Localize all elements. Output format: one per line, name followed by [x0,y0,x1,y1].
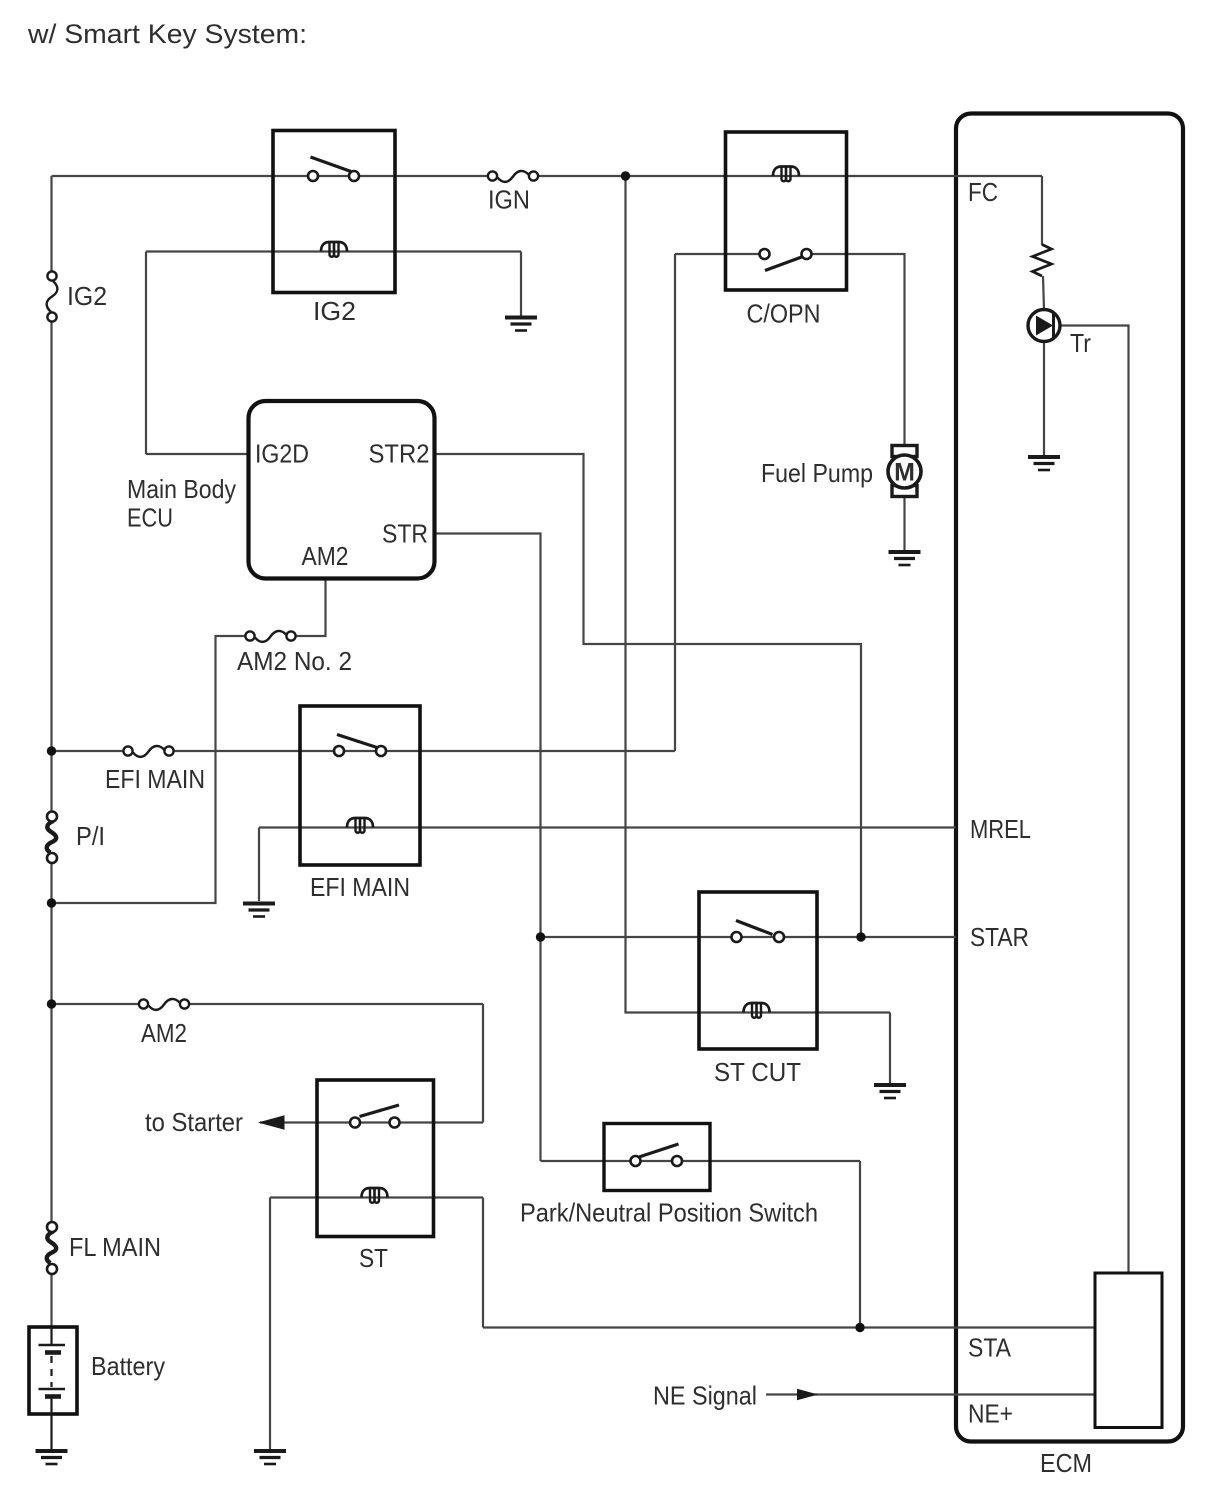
wire: MREL line from EFI MAIN coil [259,826,956,828]
wire: IGN feed to ST CUT coil [626,176,891,1013]
Main Body ECU box [249,401,435,579]
battery box [29,1327,77,1414]
resistor R (FC pull) [1033,245,1052,277]
svg-text:STR2: STR2 [369,439,430,469]
ground for battery [36,1451,68,1464]
svg-text:w/ Smart Key System:: w/ Smart Key System: [27,19,307,49]
wire: AM2 No.2 return to bus [52,636,251,903]
relay IG2 box [273,131,395,293]
junction node: bus / EFI MAIN feed [47,746,56,755]
svg-text:ECU: ECU [127,503,173,533]
fuse IGN [488,171,538,182]
junction node: STR2 / STAR tee [856,932,865,941]
fusible link FL MAIN [47,1222,57,1274]
relay EFI MAIN coil [347,818,373,833]
svg-text:ST: ST [359,1243,388,1273]
relay C/OPN box [726,132,847,290]
wire: IG2D drive vertical [145,252,147,455]
junction node: park/neutral return / STA [855,1323,864,1332]
fuse IG2 (vertical on bus) [47,271,58,321]
svg-text:Park/Neutral Position Switch: Park/Neutral Position Switch [520,1198,818,1228]
wire: fuel pump ground lead [903,498,905,552]
svg-text:Tr: Tr [1070,328,1091,358]
relay ST CUT switch contacts [732,921,785,943]
svg-text:AM2: AM2 [141,1018,187,1048]
junction node: STR / STAR tee [536,932,545,941]
wire: ST CUT coil ground lead [889,1013,891,1085]
svg-text:IG2: IG2 [313,296,356,326]
wire: park/neutral return drop [859,1161,861,1328]
wire: ST coil ground lead [269,1198,271,1451]
svg-text:Battery: Battery [91,1351,165,1381]
wire: FC drop to resistor [1041,176,1043,245]
wire: STR2 pin lead [435,454,862,937]
relay ST CUT box [699,892,817,1049]
wire: STA line into ECM [483,1326,1095,1328]
wire: IG2 relay coil line [146,250,521,252]
wire: ST coil to STA drop [482,1198,484,1328]
relay IG2 switch contacts [308,157,359,181]
relay C/OPN coil [773,167,799,182]
wire: Tr base lead [1060,326,1129,1274]
svg-text:AM2 No. 2: AM2 No. 2 [237,646,352,676]
ground for ST CUT coil [874,1085,906,1098]
wire: IGN feed top horizontal to FC [52,175,493,177]
wire: STR pin lead [435,534,541,1162]
wire: AM2 pin drop from Main Body ECU [291,579,326,637]
svg-text:P/I: P/I [76,821,105,851]
wire: park/neutral switch line [541,1160,861,1162]
svg-text:AM2: AM2 [302,541,349,571]
wire: STAR line through ST CUT switch [541,936,957,938]
relay ST coil [362,1188,388,1203]
wire: AM2 drop to ST switch [482,1004,484,1123]
wire: EFI MAIN feed horizontal [52,750,129,752]
svg-text:NE+: NE+ [968,1399,1013,1429]
wire: EFI MAIN coil ground lead [258,828,260,902]
fuel pump motor M1 [888,446,921,497]
svg-text:MREL: MREL [970,814,1031,844]
arrow to Starter [258,1115,285,1130]
svg-text:IG2D: IG2D [255,439,309,469]
ground for IG2 coil [505,318,537,331]
relay ST box [317,1080,434,1237]
svg-text:to Starter: to Starter [145,1107,243,1137]
ECM connector block [1095,1273,1162,1428]
junction node: bus / AM2 line [47,999,56,1008]
park/neutral switch contacts [631,1144,683,1166]
fuse EFI MAIN [123,746,173,757]
svg-text:EFI MAIN: EFI MAIN [105,764,205,794]
svg-text:ST CUT: ST CUT [714,1057,801,1087]
svg-text:Main Body: Main Body [127,474,236,504]
wire: Tr emitter ground lead [1043,342,1045,457]
svg-text:C/OPN: C/OPN [747,299,821,329]
fuse AM2 No. 2 [245,631,295,642]
wire: C/OPN switch left lead [675,253,765,255]
relay IG2 coil [321,242,347,257]
battery cells [39,1327,66,1450]
relay ST switch contacts [350,1105,400,1128]
relay C/OPN switch contacts [760,249,812,271]
fuse AM2 [139,999,189,1010]
svg-text:EFI MAIN: EFI MAIN [310,872,410,902]
relay ST CUT coil [744,1003,770,1018]
svg-text:ECM: ECM [1040,1448,1092,1478]
svg-text:FL MAIN: FL MAIN [69,1232,161,1262]
wire: C/OPN switch riser [674,254,676,751]
wire: C/OPN switch to fuel pump [807,254,905,446]
ground for EFI MAIN coil [243,904,275,917]
arrow NE Signal [797,1389,818,1401]
svg-text:IG2: IG2 [67,281,107,311]
wire: AM2 line to ST relay [52,1003,144,1005]
wire: ST switch line to starter arrow [260,1121,483,1123]
wire: NE+ line [766,1393,1095,1395]
wire: resistor to Tr collector [1043,276,1044,310]
junction node: IGN line / ST CUT coil feed [621,171,630,180]
relay EFI MAIN box [300,706,420,865]
park/neutral position switch box [604,1124,710,1191]
svg-text:IGN: IGN [488,185,530,215]
svg-text:STR: STR [382,519,428,549]
relay EFI MAIN switch contacts [334,735,386,757]
svg-text:NE Signal: NE Signal [653,1381,757,1411]
svg-text:Fuel Pump: Fuel Pump [761,458,873,488]
ground for ST coil [254,1451,286,1464]
transistor Tr [1028,310,1060,342]
svg-text:FC: FC [968,177,998,207]
ground for Tr emitter [1028,457,1060,470]
wire: IG2D pin lead [146,453,249,455]
svg-text:STA: STA [968,1333,1012,1363]
fusible link P/I [47,812,57,864]
wire: ST coil line [270,1196,483,1198]
wire: IG2 coil ground lead [520,252,522,318]
junction node: bus / AM2 No.2 return [47,898,56,907]
wire: battery main vertical bus (node B+) [50,176,52,276]
ECM block outline [956,114,1183,1442]
svg-text:M: M [894,459,915,487]
svg-text:STAR: STAR [970,922,1029,952]
ground for fuel pump [889,552,921,565]
